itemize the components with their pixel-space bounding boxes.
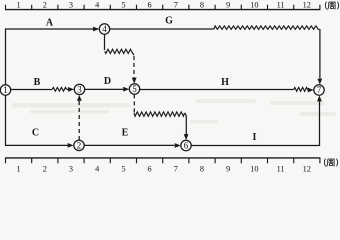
arrowhead H into node7 left [308, 88, 314, 93]
drop into node6 [185, 117, 187, 135]
svg-text:7: 7 [317, 85, 322, 95]
svg-text:12: 12 [303, 164, 311, 173]
float zigzag 5 to 6 [134, 112, 185, 116]
svg-text:11: 11 [277, 0, 285, 9]
svg-text:8: 8 [200, 164, 204, 173]
arrowhead float into node6 top [184, 134, 189, 140]
svg-text:E: E [122, 127, 129, 138]
arrowhead C into node2 [68, 143, 74, 148]
svg-text:1: 1 [17, 0, 21, 9]
svg-text:7: 7 [174, 164, 178, 173]
wire B: float to node3 [67, 88, 69, 90]
top ruler line [5, 9, 320, 11]
wire D: node3 right to node5 [85, 88, 123, 90]
svg-text:H: H [221, 77, 229, 88]
node 5 [129, 84, 139, 94]
svg-text:9: 9 [226, 164, 230, 173]
svg-text:7: 7 [174, 0, 178, 9]
node 3 [74, 84, 84, 94]
arrowhead dummy into node3 bottom [77, 95, 82, 101]
svg-text:11: 11 [277, 164, 285, 173]
node 7 [314, 85, 324, 95]
svg-text:2: 2 [77, 141, 82, 151]
bottom ruler line [5, 157, 320, 159]
svg-text:9: 9 [226, 0, 230, 9]
svg-text:C: C [32, 127, 39, 138]
wire B: node1 right to float [11, 89, 52, 91]
arrowhead E into node6 [175, 143, 181, 148]
wire G: node4 right [110, 28, 214, 30]
svg-text:6: 6 [148, 164, 152, 173]
wire H: float to arrowhead [307, 89, 310, 91]
arrowhead A into node4 [93, 27, 99, 32]
arrowhead B into node3 [68, 87, 74, 92]
unit label top (zhou) [325, 2, 338, 10]
float zigzag on G [214, 26, 319, 29]
wire C: node1 down then right to node2 [6, 95, 68, 145]
svg-text:I: I [253, 132, 257, 143]
unit label bottom (zhou) [324, 159, 337, 167]
svg-text:D: D [104, 76, 111, 87]
node 6 [181, 140, 191, 150]
float corner into node6 drop [185, 113, 187, 117]
faint scan bleed-through [12, 99, 336, 124]
arrowhead G into node7 top [317, 79, 322, 85]
arrowhead I into node7 bottom [317, 95, 322, 101]
svg-text:12: 12 [303, 0, 311, 9]
svg-text:6: 6 [148, 0, 152, 9]
node 1 [0, 85, 10, 95]
svg-text:10: 10 [250, 0, 258, 9]
node 2 [74, 140, 84, 150]
svg-text:A: A [46, 17, 54, 28]
dashed stub below node5 [133, 94, 135, 112]
arrowhead float into node5 top [132, 78, 137, 84]
svg-text:5: 5 [121, 164, 125, 173]
svg-text:6: 6 [184, 141, 189, 151]
svg-text:3: 3 [77, 85, 82, 95]
wire I: node6 right then up to node7 [191, 101, 319, 145]
node 4 [99, 24, 109, 34]
svg-text:G: G [165, 15, 173, 26]
top ruler ticks [6, 5, 320, 10]
svg-text:10: 10 [250, 164, 258, 173]
float zigzag on B [52, 87, 66, 91]
float zigzag 4 to 5 [105, 49, 132, 53]
dashed drop into node5 [133, 56, 135, 78]
float corner into dashed drop [132, 51, 135, 55]
svg-text:5: 5 [121, 0, 125, 9]
svg-text:3: 3 [69, 164, 73, 173]
svg-text:2: 2 [43, 0, 47, 9]
wire G: drop to node7 [319, 29, 321, 78]
bottom ruler ticks [6, 158, 320, 163]
svg-text:8: 8 [200, 0, 204, 9]
svg-text:1: 1 [17, 164, 21, 173]
svg-text:2: 2 [43, 164, 47, 173]
wire E: node2 right to node6 [84, 144, 174, 146]
svg-text:3: 3 [69, 0, 73, 9]
float stub below node4 [104, 34, 106, 50]
svg-text:5: 5 [132, 84, 137, 94]
dummy arrow 2 to 3 dashed [78, 100, 80, 140]
wire A: node1 up then right to node4 [6, 29, 99, 85]
arrowhead D into node5 [123, 87, 129, 92]
svg-text:1: 1 [3, 85, 8, 95]
float zigzag on H [294, 87, 308, 91]
svg-text:4: 4 [102, 24, 107, 34]
wire H: node5 right to float [140, 89, 294, 91]
svg-text:B: B [34, 77, 41, 88]
